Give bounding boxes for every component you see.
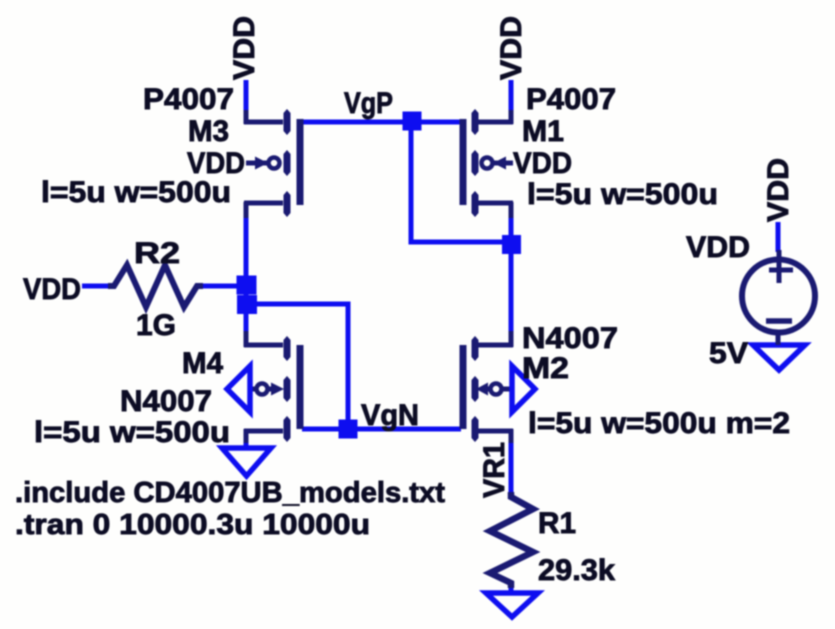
svg-text:VDD: VDD [23,273,81,306]
ground below M4 [222,448,271,476]
svg-text:VDD: VDD [513,147,572,180]
transistor M2 (NMOS, gate left) [463,331,513,443]
M3 drain lead [244,201,283,206]
voltage source V1 [742,250,815,345]
svg-text:.tran 0 10000.3u 10000u: .tran 0 10000.3u 10000u [15,509,370,541]
ground below R1 [486,593,538,617]
svg-text:P4007: P4007 [526,83,616,116]
wire node to VgN branch [246,304,348,429]
M2 source lead [475,429,513,434]
svg-text:M2: M2 [522,352,569,385]
wire M1 VDD [509,80,514,120]
svg-text:.include CD4007UB_models.txt: .include CD4007UB_models.txt [15,477,445,509]
M4 source lead [244,429,283,434]
svg-text:M1: M1 [522,115,564,148]
node junction R2 lower [237,295,257,314]
node junction VgP [403,112,422,131]
wire VgP horizontal M3 gate to M1 gate [302,120,462,125]
wire M2 source down to R1 [509,436,514,497]
M3 source lead [244,120,283,125]
svg-text:29.3k: 29.3k [538,554,615,587]
wire M4 source to ground [244,433,249,449]
svg-text:M3: M3 [188,115,229,148]
wire R2 right lead to node [199,284,246,289]
svg-text:N4007: N4007 [120,385,212,418]
svg-text:5V: 5V [709,337,748,370]
svg-text:l=5u w=500u m=2: l=5u w=500u m=2 [528,407,790,440]
svg-text:VDD: VDD [762,158,795,222]
svg-text:l=5u w=500u: l=5u w=500u [34,416,230,449]
svg-text:VR1: VR1 [478,442,511,498]
svg-text:VDD: VDD [228,16,261,80]
M4 drain lead [244,343,283,348]
wire VDD to M3 source [244,80,249,122]
wire VgP down from junction [411,122,511,242]
svg-text:R2: R2 [134,237,180,270]
M1 source lead [475,120,513,125]
transistor M1 (PMOS, gate left) [463,109,513,218]
V1 circle body [742,260,815,333]
wire M3 drain to M4 drain (left vertical) [244,205,249,345]
svg-text:VDD: VDD [495,16,528,80]
V1 minus sign [766,318,792,324]
M2 drain lead [475,343,513,348]
node junction right mid [502,235,521,254]
V1 plus sign [777,250,782,283]
M2 bulk ground arrow (flag) [512,366,535,412]
M1 drain lead [475,201,513,206]
svg-text:P4007: P4007 [143,83,234,116]
node junction VgN [339,420,358,439]
wire M1 drain to M2 drain [509,205,514,345]
svg-text:VDD: VDD [686,231,750,264]
svg-text:M4: M4 [182,347,223,380]
svg-text:l=5u w=500u: l=5u w=500u [527,178,718,211]
svg-text:l=5u w=500u: l=5u w=500u [41,176,231,209]
svg-text:VgN: VgN [361,399,419,432]
M4 bulk ground arrow (flag) [227,366,250,412]
node junction R2 upper [237,276,257,295]
svg-text:R1: R1 [538,507,576,540]
wire V1 top to VDD flag [776,222,781,252]
ground below V1 [753,345,805,370]
svg-text:N4007: N4007 [522,322,618,355]
transistor M3 (PMOS, gate right) [244,109,300,218]
transistor M4 (NMOS, gate right) [244,331,300,443]
svg-text:VgP: VgP [344,87,393,120]
wire VgN horizontal M4 gate to M2 gate [302,427,461,432]
svg-text:1G: 1G [136,309,176,342]
wire R1 bottom to ground [509,583,514,594]
V1 bottom pin stub [776,330,781,345]
resistor R1 [490,492,533,588]
wire R2 left lead to VDD label [82,284,112,289]
resistor R2 [108,265,203,307]
